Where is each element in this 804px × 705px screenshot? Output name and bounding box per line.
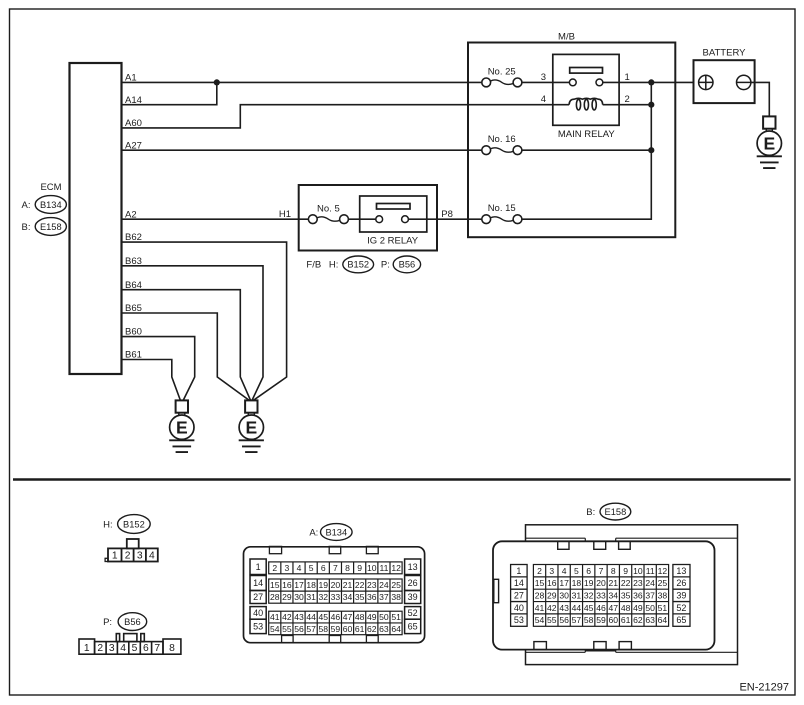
ground E (battery) (763, 116, 775, 128)
svg-text:B152: B152 (347, 260, 369, 270)
svg-text:49: 49 (367, 612, 377, 622)
svg-text:4: 4 (562, 566, 567, 576)
svg-text:23: 23 (633, 578, 643, 588)
wire B65 to ground G2 (122, 313, 250, 400)
svg-text:5: 5 (574, 566, 579, 576)
wire fuse No.25 to main relay pin 3 (522, 81, 570, 83)
svg-text:18: 18 (306, 580, 316, 590)
svg-text:EN-21297: EN-21297 (739, 682, 789, 694)
svg-text:26: 26 (676, 578, 686, 588)
connector B pins 2-64 (middle grid) (533, 565, 668, 627)
wire fuse No.5 to IG2 relay contact (348, 218, 375, 220)
connector B: E158 shell (493, 541, 715, 649)
svg-text:33: 33 (596, 591, 606, 601)
svg-text:21: 21 (609, 578, 619, 588)
connector A pins 41-51 / 54-64 (rows 4-5) (269, 611, 402, 635)
svg-text:IG 2 RELAY: IG 2 RELAY (367, 235, 419, 246)
svg-text:41: 41 (535, 603, 545, 613)
wire A14 up to A1 (122, 82, 217, 104)
svg-text:2: 2 (125, 551, 131, 562)
svg-text:56: 56 (294, 624, 304, 634)
svg-text:64: 64 (658, 615, 668, 625)
wire A60 to main relay pin 4 coil (122, 105, 570, 128)
svg-text:51: 51 (391, 612, 401, 622)
svg-text:57: 57 (572, 615, 582, 625)
svg-text:63: 63 (645, 615, 655, 625)
svg-text:8: 8 (169, 643, 175, 654)
svg-text:5: 5 (309, 563, 314, 573)
IG 2 relay contact terminals (376, 216, 383, 223)
svg-text:3: 3 (109, 643, 115, 654)
svg-text:27: 27 (253, 592, 263, 602)
svg-text:9: 9 (623, 566, 628, 576)
battery negative terminal (737, 75, 751, 89)
svg-text:26: 26 (408, 578, 418, 588)
svg-text:32: 32 (584, 591, 594, 601)
svg-text:21: 21 (343, 580, 353, 590)
svg-text:19: 19 (319, 580, 329, 590)
wire A2 to IG2 relay fuse No.5 (122, 218, 309, 220)
fuse No. 25 (482, 78, 491, 87)
svg-text:16: 16 (547, 578, 557, 588)
svg-text:3: 3 (285, 563, 290, 573)
svg-text:B56: B56 (124, 617, 141, 627)
ECM U1 box (70, 63, 122, 374)
svg-text:20: 20 (331, 580, 341, 590)
svg-text:B152: B152 (123, 519, 145, 529)
svg-text:28: 28 (535, 591, 545, 601)
node bus junction 1 (648, 79, 654, 85)
wire A1 to fuse No.25 (122, 81, 482, 83)
svg-text:27: 27 (514, 591, 524, 601)
svg-text:60: 60 (609, 615, 619, 625)
svg-text:42: 42 (547, 603, 557, 613)
svg-text:53: 53 (514, 615, 524, 625)
main relay U2 box (553, 54, 619, 125)
svg-text:52: 52 (676, 603, 686, 613)
svg-text:3: 3 (541, 72, 546, 83)
svg-text:2: 2 (272, 563, 277, 573)
svg-text:H:: H: (329, 260, 339, 271)
svg-text:32: 32 (319, 592, 329, 602)
svg-text:17: 17 (294, 580, 304, 590)
svg-text:34: 34 (343, 592, 353, 602)
svg-text:48: 48 (621, 603, 631, 613)
main relay coil L1 (569, 98, 603, 110)
svg-text:A:: A: (309, 527, 318, 538)
wire B61 to ground G1 (122, 360, 181, 401)
connector A bottom index notches (282, 636, 379, 643)
connector P: B56 body (79, 634, 181, 655)
svg-text:40: 40 (514, 603, 524, 613)
svg-text:50: 50 (645, 603, 655, 613)
svg-text:46: 46 (331, 612, 341, 622)
svg-text:56: 56 (559, 615, 569, 625)
svg-text:59: 59 (331, 624, 341, 634)
svg-text:57: 57 (306, 624, 316, 634)
svg-text:63: 63 (379, 624, 389, 634)
svg-text:54: 54 (270, 624, 280, 634)
svg-text:13: 13 (676, 566, 686, 576)
svg-text:10: 10 (367, 563, 377, 573)
svg-text:30: 30 (559, 591, 569, 601)
svg-text:H1: H1 (279, 209, 291, 220)
svg-text:B:: B: (22, 222, 31, 233)
connector B pins 1,14,27,40,53 (left column) (511, 565, 527, 627)
svg-text:P8: P8 (441, 209, 453, 220)
wire main relay coil pin 2 to bus (603, 104, 652, 106)
svg-text:45: 45 (319, 612, 329, 622)
svg-text:11: 11 (379, 563, 388, 573)
svg-text:62: 62 (367, 624, 377, 634)
connector A: B134 shell (244, 547, 425, 643)
svg-text:6: 6 (143, 643, 149, 654)
svg-text:2: 2 (537, 566, 542, 576)
svg-text:18: 18 (572, 578, 582, 588)
svg-text:11: 11 (646, 566, 655, 576)
ground G1 (E) (176, 400, 188, 412)
svg-text:53: 53 (253, 622, 263, 632)
svg-text:16: 16 (282, 580, 292, 590)
connector B left latch tab (494, 579, 499, 602)
wire B62 to ground G2 (122, 242, 287, 400)
svg-text:31: 31 (572, 591, 582, 601)
svg-text:3: 3 (137, 551, 143, 562)
svg-text:38: 38 (658, 591, 668, 601)
battery BT1 box (694, 60, 755, 103)
svg-text:37: 37 (379, 592, 389, 602)
IG 2 relay contact bar (377, 204, 411, 210)
svg-text:B:: B: (586, 507, 595, 518)
svg-text:29: 29 (547, 591, 557, 601)
svg-text:45: 45 (584, 603, 594, 613)
svg-text:55: 55 (282, 624, 292, 634)
svg-text:58: 58 (319, 624, 329, 634)
battery positive terminal (699, 75, 713, 89)
svg-text:No. 15: No. 15 (488, 203, 516, 214)
svg-text:4: 4 (297, 563, 302, 573)
svg-text:14: 14 (253, 578, 263, 588)
svg-text:34: 34 (609, 591, 619, 601)
svg-text:BATTERY: BATTERY (703, 48, 747, 59)
svg-text:50: 50 (379, 612, 389, 622)
svg-text:42: 42 (282, 612, 292, 622)
connector B top index tabs (558, 541, 630, 549)
svg-text:ECM: ECM (40, 182, 61, 193)
svg-text:15: 15 (535, 578, 545, 588)
svg-text:4: 4 (541, 94, 546, 105)
svg-text:8: 8 (345, 563, 350, 573)
svg-text:B134: B134 (40, 200, 62, 210)
svg-text:37: 37 (645, 591, 655, 601)
section separator rule (13, 478, 791, 481)
connector A top index notches (269, 546, 378, 553)
svg-text:24: 24 (379, 580, 389, 590)
connector A pins 15-25 / 28-38 (rows 2-3) (269, 579, 402, 603)
svg-text:10: 10 (633, 566, 643, 576)
wire IG2 relay to fuse No.15, node P8 (408, 218, 481, 220)
svg-text:22: 22 (621, 578, 631, 588)
svg-text:E: E (176, 417, 188, 437)
wire B60 to ground G1 (122, 337, 195, 401)
svg-text:52: 52 (408, 608, 418, 618)
svg-text:3: 3 (549, 566, 554, 576)
svg-text:No. 25: No. 25 (488, 66, 516, 77)
svg-text:48: 48 (355, 612, 365, 622)
connector A pins 13,26,39,52,65 (right column) (405, 559, 421, 575)
svg-text:6: 6 (586, 566, 591, 576)
svg-text:MAIN RELAY: MAIN RELAY (558, 129, 616, 140)
wire B63 to ground G2 (122, 266, 264, 401)
svg-text:F/B: F/B (306, 260, 321, 271)
svg-text:12: 12 (391, 563, 401, 573)
IG 2 relay outer box (299, 185, 437, 251)
svg-text:41: 41 (270, 612, 280, 622)
wire battery negative to ground (751, 82, 769, 116)
svg-text:7: 7 (154, 643, 160, 654)
IG 2 relay inner box (360, 196, 427, 232)
svg-text:2: 2 (625, 94, 630, 105)
svg-text:38: 38 (391, 592, 401, 602)
svg-text:19: 19 (584, 578, 594, 588)
svg-text:2: 2 (97, 643, 103, 654)
svg-text:25: 25 (391, 580, 401, 590)
svg-text:E158: E158 (40, 222, 62, 232)
svg-text:61: 61 (355, 624, 365, 634)
svg-text:A:: A: (22, 200, 31, 211)
connector H: B152 body (105, 539, 158, 562)
svg-text:1: 1 (256, 562, 261, 572)
svg-text:20: 20 (596, 578, 606, 588)
svg-text:15: 15 (270, 580, 280, 590)
connector B bottom index tabs (534, 642, 631, 650)
svg-text:28: 28 (270, 592, 280, 602)
svg-text:P:: P: (103, 617, 112, 628)
svg-text:E: E (763, 133, 775, 153)
wire fuse No.16 to bus (522, 149, 651, 151)
svg-text:62: 62 (633, 615, 643, 625)
svg-text:B134: B134 (325, 527, 347, 537)
svg-text:59: 59 (596, 615, 606, 625)
svg-text:51: 51 (658, 603, 668, 613)
svg-text:H:: H: (103, 519, 113, 530)
svg-text:22: 22 (355, 580, 365, 590)
node bus junction 3 (648, 147, 654, 153)
svg-text:7: 7 (599, 566, 604, 576)
main relay contact bar (570, 68, 603, 74)
svg-text:25: 25 (658, 578, 668, 588)
svg-text:55: 55 (547, 615, 557, 625)
connector B pins 13,26,39,52,65 (right column) (673, 565, 690, 627)
svg-text:7: 7 (333, 563, 338, 573)
svg-text:43: 43 (294, 612, 304, 622)
svg-text:65: 65 (676, 615, 686, 625)
svg-text:8: 8 (611, 566, 616, 576)
svg-text:23: 23 (367, 580, 377, 590)
svg-text:12: 12 (658, 566, 668, 576)
svg-text:54: 54 (535, 615, 545, 625)
M/B fuse box (468, 43, 675, 238)
svg-text:35: 35 (355, 592, 365, 602)
svg-text:M/B: M/B (558, 31, 575, 42)
svg-text:60: 60 (343, 624, 353, 634)
svg-text:35: 35 (621, 591, 631, 601)
svg-text:14: 14 (514, 578, 524, 588)
fuse No. 15 (482, 215, 491, 224)
svg-text:29: 29 (282, 592, 292, 602)
svg-text:No. 16: No. 16 (488, 134, 516, 145)
wire main relay pin 1 to battery (603, 81, 699, 83)
svg-text:17: 17 (559, 578, 569, 588)
svg-text:39: 39 (408, 592, 418, 602)
svg-text:4: 4 (120, 643, 126, 654)
svg-text:47: 47 (343, 612, 353, 622)
svg-text:P:: P: (381, 260, 390, 271)
wire A27 to fuse No.16 (122, 149, 482, 151)
svg-text:4: 4 (149, 551, 155, 562)
connector A pins 1,14,27,40,53 (left column) (250, 559, 266, 575)
svg-text:31: 31 (306, 592, 316, 602)
svg-text:30: 30 (294, 592, 304, 602)
svg-text:46: 46 (596, 603, 606, 613)
svg-text:36: 36 (367, 592, 377, 602)
svg-text:44: 44 (306, 612, 316, 622)
svg-text:61: 61 (621, 615, 631, 625)
svg-text:6: 6 (321, 563, 326, 573)
wire fuse No.15 to bus (522, 82, 651, 219)
wire B64 to ground G2 (122, 290, 251, 401)
svg-text:39: 39 (676, 591, 686, 601)
svg-text:40: 40 (253, 608, 263, 618)
connector B rear plate (526, 525, 738, 665)
svg-text:36: 36 (633, 591, 643, 601)
svg-text:9: 9 (357, 563, 362, 573)
svg-text:1: 1 (84, 643, 90, 654)
svg-text:33: 33 (331, 592, 341, 602)
fuse No. 16 (482, 146, 491, 155)
node junction A1/A14 (214, 79, 220, 85)
svg-text:65: 65 (408, 622, 418, 632)
svg-text:5: 5 (132, 643, 138, 654)
svg-text:E158: E158 (605, 507, 627, 517)
svg-text:58: 58 (584, 615, 594, 625)
connector A pins 2-12 (row 1) (269, 562, 402, 574)
fuse No. 5 (308, 215, 317, 224)
svg-text:1: 1 (112, 551, 118, 562)
svg-text:43: 43 (559, 603, 569, 613)
svg-text:24: 24 (645, 578, 655, 588)
svg-text:44: 44 (572, 603, 582, 613)
svg-text:No. 5: No. 5 (317, 203, 340, 214)
main relay contact terminals (569, 79, 576, 86)
svg-text:1: 1 (625, 72, 630, 83)
svg-text:B56: B56 (399, 260, 416, 270)
node bus junction 2 (648, 102, 654, 108)
svg-text:64: 64 (391, 624, 401, 634)
svg-text:13: 13 (408, 562, 418, 572)
svg-text:47: 47 (609, 603, 619, 613)
svg-text:49: 49 (633, 603, 643, 613)
ground G2 (E) (245, 400, 257, 412)
svg-text:E: E (245, 417, 257, 437)
svg-text:1: 1 (516, 566, 521, 576)
